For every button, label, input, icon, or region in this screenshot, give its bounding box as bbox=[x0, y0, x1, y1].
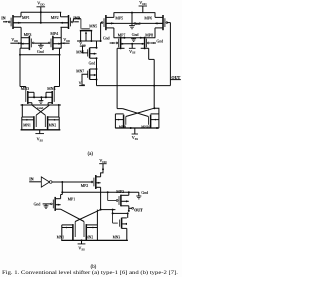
svg-text:MP1: MP1 bbox=[22, 15, 30, 20]
svg-text:MP3: MP3 bbox=[24, 32, 32, 37]
svg-text:MN3: MN3 bbox=[113, 236, 121, 240]
svg-text:Gnd: Gnd bbox=[141, 191, 148, 195]
svg-text:MP6: MP6 bbox=[144, 16, 152, 21]
svg-text:Gnd: Gnd bbox=[34, 202, 41, 206]
svg-text:MN6: MN6 bbox=[76, 50, 84, 54]
svg-text:MN1: MN1 bbox=[23, 124, 31, 128]
svg-text:MN7: MN7 bbox=[76, 70, 84, 74]
svg-text:MP8: MP8 bbox=[145, 32, 153, 37]
svg-text:Gnd: Gnd bbox=[103, 37, 110, 41]
svg-text:MP4: MP4 bbox=[50, 31, 58, 36]
svg-text:Gnd: Gnd bbox=[89, 61, 96, 65]
svg-text:MP2: MP2 bbox=[51, 15, 59, 20]
svg-text:MN1: MN1 bbox=[57, 236, 65, 240]
svg-text:MP5: MP5 bbox=[115, 16, 123, 21]
svg-text:Gnd: Gnd bbox=[132, 33, 139, 37]
svg-text:MP7: MP7 bbox=[118, 32, 126, 37]
svg-text:MN3: MN3 bbox=[21, 87, 29, 91]
svg-text:MN2: MN2 bbox=[86, 236, 94, 240]
svg-text:MP1: MP1 bbox=[68, 198, 76, 202]
svg-text:MN5: MN5 bbox=[89, 24, 97, 28]
svg-text:MN2: MN2 bbox=[49, 124, 57, 128]
svg-text:MP3: MP3 bbox=[116, 189, 124, 194]
svg-text:OUT: OUT bbox=[134, 209, 143, 213]
svg-text:OUT: OUT bbox=[171, 75, 180, 80]
svg-text:Gnd: Gnd bbox=[134, 22, 141, 26]
svg-text:MP2: MP2 bbox=[81, 184, 89, 188]
svg-text:(b): (b) bbox=[91, 265, 97, 270]
svg-text:IN: IN bbox=[1, 17, 6, 21]
svg-text:Gnd: Gnd bbox=[157, 39, 164, 43]
svg-text:Fig. 1. Conventional level sh: Fig. 1. Conventional level shifter (a) t… bbox=[2, 271, 178, 276]
svg-text:Gnd: Gnd bbox=[37, 50, 44, 54]
svg-text:IN: IN bbox=[29, 177, 34, 181]
svg-text:(a): (a) bbox=[88, 152, 94, 157]
